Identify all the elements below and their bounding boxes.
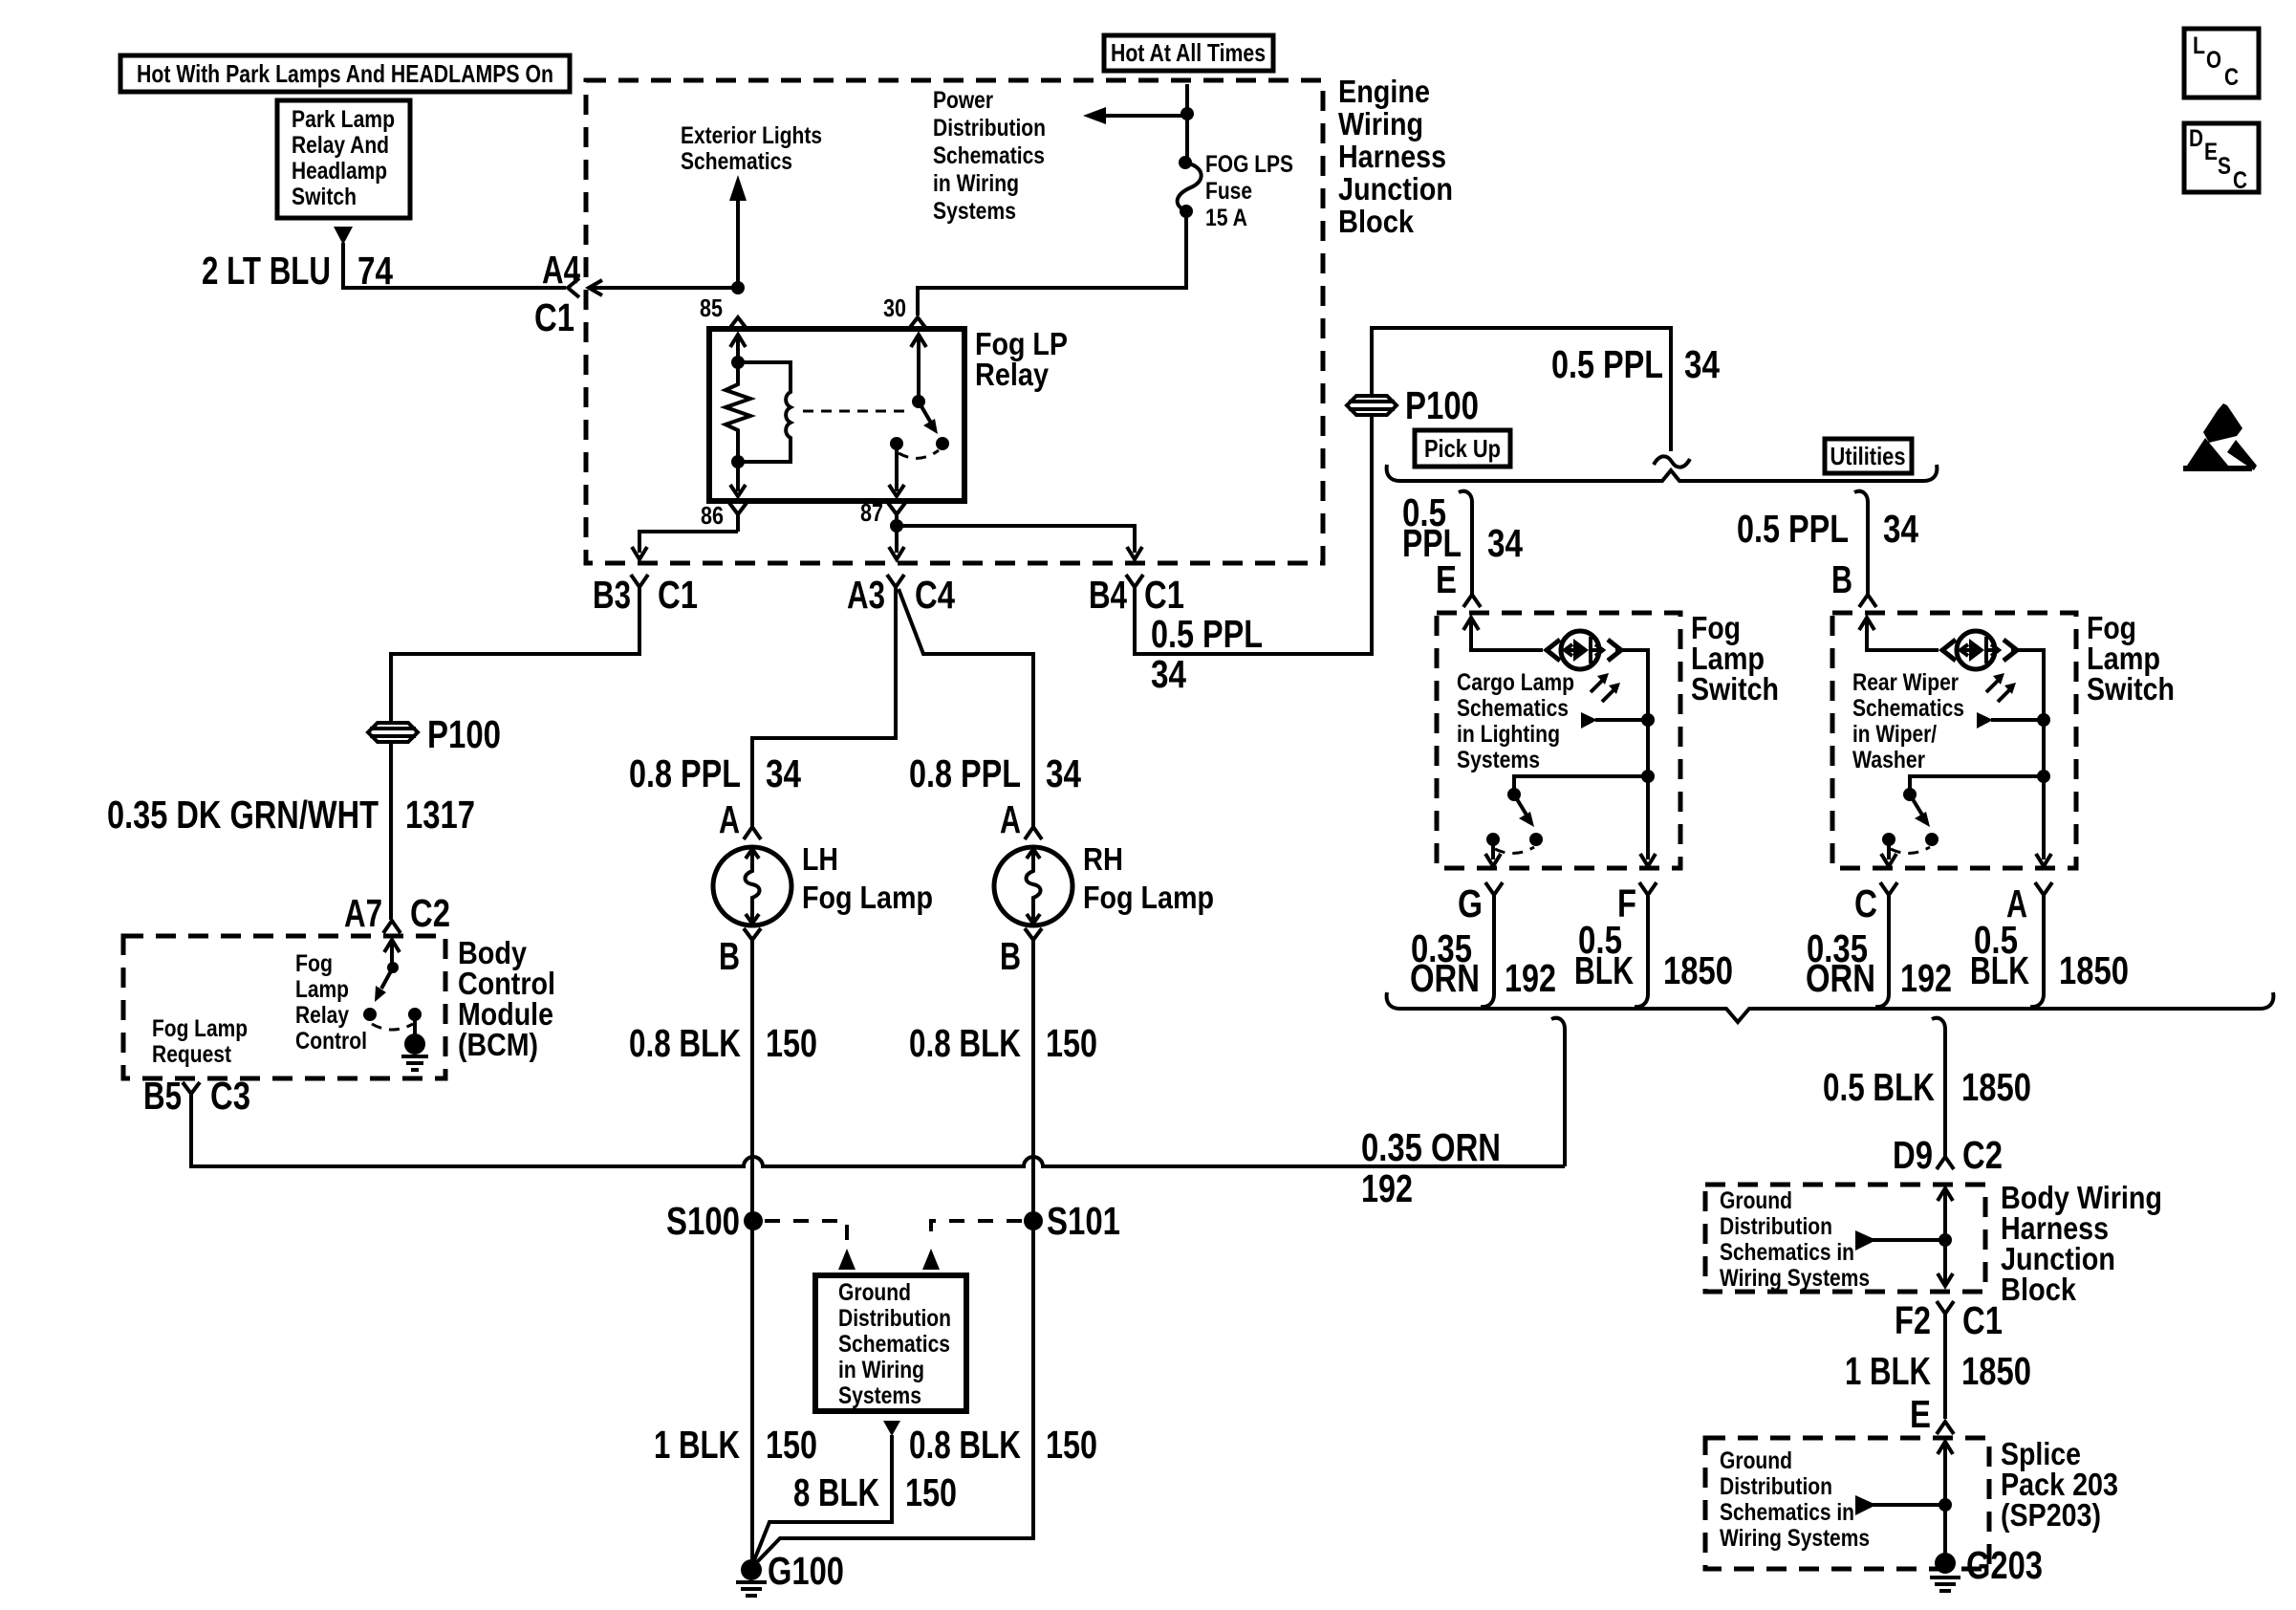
resistor: relay suppression resistor — [726, 362, 750, 438]
svg-text:L: L — [2193, 33, 2205, 59]
svg-text:Fuse: Fuse — [1205, 178, 1252, 205]
svg-text:FOG LPS: FOG LPS — [1205, 151, 1293, 178]
node: junction to power distribution — [1180, 107, 1194, 120]
wire: LH fog lamp feed from A3 — [752, 587, 896, 827]
label: Ground Distribution Schematics in Wiring Systems (body block) — [1720, 1187, 1870, 1292]
svg-text:Block: Block — [1338, 204, 1415, 239]
splice pack internal wire — [1938, 1442, 1953, 1558]
node: junction at pin 85 feed — [731, 281, 745, 294]
connector B5/C3 (fork) — [183, 1082, 200, 1108]
left switch entry arrow — [1463, 618, 1543, 650]
label: Fog Lamp Request — [152, 1015, 248, 1068]
wire: battery feed down from Hot At All Times — [1185, 84, 1189, 159]
svg-text:8 BLK: 8 BLK — [793, 1470, 879, 1514]
svg-text:192: 192 — [1900, 956, 1952, 1000]
legend box: DESC — [2184, 123, 2259, 194]
svg-text:Cargo Lamp: Cargo Lamp — [1457, 669, 1574, 696]
wire: from fuse to relay pin 30 — [918, 211, 1186, 315]
svg-text:Wiring: Wiring — [1338, 106, 1423, 141]
svg-text:34: 34 — [1151, 652, 1186, 696]
svg-text:Distribution: Distribution — [933, 115, 1046, 141]
svg-text:C1: C1 — [1962, 1298, 2003, 1342]
wire: 2 LT BLU 74 from headlamp switch to connector A4 — [343, 243, 566, 288]
switch arm with arrow tip — [919, 402, 938, 434]
connector half A4/C1 (chevron) — [568, 278, 579, 297]
svg-text:150: 150 — [766, 1021, 817, 1065]
label: Fog LP Relay — [975, 326, 1068, 392]
svg-text:E: E — [1910, 1392, 1931, 1436]
svg-text:P100: P100 — [427, 712, 501, 756]
svg-text:34: 34 — [1684, 342, 1720, 386]
svg-text:0.35 DK GRN/WHT: 0.35 DK GRN/WHT — [107, 793, 379, 837]
svg-text:Engine: Engine — [1338, 74, 1430, 109]
svg-text:192: 192 — [1361, 1166, 1413, 1210]
reference arrow: rear wiper tap (right switch) — [1977, 712, 2044, 729]
svg-text:Junction: Junction — [1338, 171, 1453, 207]
fuse: FOG LPS Fuse 15 A — [1178, 151, 1293, 231]
svg-text:Switch: Switch — [1691, 671, 1779, 707]
connector pin G (fork) — [1485, 882, 1503, 906]
wire: 0.5 BLK 1850 from pin F to bus — [1635, 906, 1648, 1007]
svg-text:0.8 BLK: 0.8 BLK — [629, 1021, 741, 1065]
svg-text:0.8 PPL: 0.8 PPL — [629, 751, 741, 795]
terminal 86 (fork) — [729, 503, 747, 532]
dashed box: Body Control Module — [123, 936, 445, 1078]
svg-text:C2: C2 — [410, 891, 450, 935]
component box: Park Lamp Relay And Headlamp Switch — [277, 100, 410, 218]
connector pin B (RH lamp fork) — [1025, 928, 1042, 940]
svg-text:1 BLK: 1 BLK — [1845, 1349, 1931, 1393]
connector A3/C4 (fork) — [887, 575, 904, 587]
svg-text:Wiring Systems: Wiring Systems — [1720, 1525, 1870, 1552]
wire: from A4 to relay pin 85 node — [589, 286, 738, 290]
option brace: Pick Up / Utilities split — [1387, 465, 1938, 481]
terminal 85 (chevron) — [728, 317, 747, 330]
svg-text:1317: 1317 — [405, 793, 475, 837]
wire: resistor to pin 86 with arrow — [730, 438, 746, 496]
dashed box: Engine Wiring Harness Junction Block — [586, 80, 1323, 563]
reference arrow from Park Lamp box — [334, 227, 353, 245]
wire: pin 86 to connector B3 — [632, 532, 738, 559]
svg-text:86: 86 — [701, 501, 724, 530]
node: pin 87 splice — [890, 519, 903, 533]
wire: junction to switch pole (left) — [1514, 776, 1648, 792]
svg-text:0.8 BLK: 0.8 BLK — [909, 1423, 1021, 1467]
connector pin A (LH lamp chevron) — [744, 827, 761, 839]
svg-text:Power: Power — [933, 87, 993, 114]
ground G203 — [1930, 1543, 2043, 1591]
reference box: Ground Distribution Schematics in Wiring Systems — [815, 1275, 966, 1411]
connector pin C (fork) — [1880, 882, 1897, 906]
svg-text:S101: S101 — [1047, 1199, 1120, 1243]
connector A7/C2 (chevron) — [383, 921, 401, 933]
svg-text:Schematics: Schematics — [838, 1331, 950, 1358]
svg-text:1850: 1850 — [1663, 948, 1733, 992]
svg-text:G203: G203 — [1966, 1543, 2043, 1587]
dashed box: Fog Lamp Switch (Pick Up) — [1437, 613, 1680, 868]
svg-text:B5: B5 — [143, 1074, 182, 1118]
wire: 0.5 PPL 34 from B4 through P100 to switch feed — [1135, 328, 1671, 654]
connector pin E (chevron) — [1463, 595, 1481, 607]
svg-text:Headlamp: Headlamp — [292, 158, 387, 185]
svg-text:BLK: BLK — [1970, 948, 2029, 992]
connector P100 (pass-through grommet, right) — [1347, 383, 1479, 427]
svg-text:(BCM): (BCM) — [458, 1027, 538, 1062]
svg-text:Switch: Switch — [2087, 671, 2175, 707]
svg-text:74: 74 — [357, 249, 393, 293]
svg-text:Systems: Systems — [1457, 747, 1540, 773]
legend box: LOC — [2184, 29, 2259, 98]
svg-text:0.5 BLK: 0.5 BLK — [1823, 1065, 1935, 1109]
label: Ground Distribution Schematics in Wiring Systems (splice pack) — [1720, 1447, 1870, 1552]
dashed box: Splice Pack 203 — [1705, 1438, 1989, 1569]
svg-text:C2: C2 — [1962, 1133, 2003, 1177]
wire: 87 to connector B4 with arrow — [897, 526, 1142, 559]
coil L1: relay coil winding — [738, 362, 791, 462]
connector pin A (fork) — [2035, 882, 2052, 906]
reference arrow: Exterior Lights Schematics — [681, 122, 822, 288]
relay U1: Fog LP Relay box — [709, 329, 964, 501]
svg-text:1850: 1850 — [2059, 948, 2129, 992]
svg-text:34: 34 — [1046, 751, 1081, 795]
svg-text:Harness: Harness — [1338, 139, 1446, 174]
node: switch common — [912, 395, 925, 408]
label: Rear Wiper Schematics in Wiper/Washer — [1852, 669, 1964, 773]
svg-text:B3: B3 — [593, 573, 631, 617]
wire: A leg exit arrow (right) — [2036, 776, 2051, 866]
node: output contact to pin 87 — [890, 437, 903, 450]
svg-text:A: A — [1000, 797, 1021, 841]
svg-text:A3: A3 — [847, 573, 885, 617]
svg-text:D: D — [2189, 125, 2203, 152]
wire: output to pin 87 with arrow — [889, 444, 904, 496]
label: Body Wiring Harness Junction Block — [2001, 1180, 2162, 1307]
wire: F leg exit arrow (left) — [1640, 776, 1656, 866]
svg-text:LH: LH — [802, 841, 838, 877]
svg-text:C1: C1 — [1144, 573, 1184, 617]
svg-text:1 BLK: 1 BLK — [654, 1423, 740, 1467]
svg-text:Fog: Fog — [295, 950, 333, 977]
lamp E1: LH Fog Lamp — [713, 847, 791, 925]
node: right switch junction lower — [2037, 770, 2050, 783]
header box: Utilities — [1825, 439, 1912, 473]
svg-text:B: B — [1831, 557, 1852, 601]
svg-text:G100: G100 — [768, 1549, 844, 1593]
lamp E2: RH Fog Lamp — [994, 847, 1072, 925]
reference arrow: ground distribution tap (body block) — [1855, 1230, 1945, 1251]
node: left switch junction lower — [1641, 770, 1655, 783]
BCM fog lamp relay control switch — [363, 940, 422, 1030]
connector B3/C1 (fork) — [631, 575, 648, 595]
label: LH Fog Lamp — [802, 841, 933, 915]
svg-text:G: G — [1458, 881, 1483, 925]
svg-text:Ground: Ground — [1720, 1187, 1792, 1214]
svg-text:150: 150 — [1046, 1423, 1097, 1467]
BCM internal ground — [401, 1014, 428, 1070]
label: Engine Wiring Harness Junction Block — [1338, 74, 1453, 239]
wire: LED to A leg (right switch) — [2011, 650, 2044, 774]
reference arrow below ground box — [883, 1421, 900, 1436]
svg-text:Distribution: Distribution — [1720, 1213, 1832, 1240]
svg-text:1850: 1850 — [1961, 1349, 2031, 1393]
connector pin B (LH lamp fork) — [744, 928, 761, 940]
header box: Hot At All Times — [1104, 35, 1273, 71]
svg-text:Schematics in: Schematics in — [1720, 1499, 1854, 1526]
svg-text:Utilities: Utilities — [1830, 442, 1906, 470]
svg-text:34: 34 — [1487, 521, 1523, 565]
svg-text:ORN: ORN — [1806, 956, 1875, 1000]
label: RH Fog Lamp — [1083, 841, 1214, 915]
svg-text:A7: A7 — [344, 891, 382, 935]
svg-text:0.35 ORN: 0.35 ORN — [1361, 1125, 1501, 1169]
dashed box: Body Wiring Harness Junction Block — [1705, 1185, 1985, 1292]
svg-text:150: 150 — [1046, 1021, 1097, 1065]
svg-text:Ground: Ground — [1720, 1447, 1792, 1474]
svg-text:Hot At All Times: Hot At All Times — [1111, 38, 1266, 67]
svg-text:85: 85 — [700, 294, 723, 322]
svg-text:Systems: Systems — [838, 1382, 921, 1409]
svg-text:192: 192 — [1505, 956, 1556, 1000]
wire: 0.5 BLK 1850 from lower bus to D9 — [1932, 1018, 1945, 1157]
connector pin A (RH lamp chevron) — [1025, 827, 1042, 839]
svg-text:0.8 PPL: 0.8 PPL — [909, 751, 1021, 795]
LED indicator (right switch) — [1942, 631, 2017, 702]
svg-text:RH: RH — [1083, 841, 1123, 877]
svg-text:Distribution: Distribution — [838, 1305, 951, 1332]
node: coil top — [731, 356, 745, 369]
svg-text:Relay: Relay — [295, 1002, 349, 1029]
svg-text:Washer: Washer — [1852, 747, 1925, 773]
svg-text:(SP203): (SP203) — [2001, 1497, 2101, 1533]
right switch entry arrow — [1859, 618, 1939, 650]
svg-text:Ground: Ground — [838, 1279, 911, 1306]
reference arrow: Power Distribution Schematics — [933, 87, 1187, 225]
svg-text:ORN: ORN — [1410, 956, 1480, 1000]
terminal 87 (fork) — [888, 503, 905, 526]
switch SW1: fog lamp switch contact (left) — [1485, 788, 1543, 866]
wire: 0.5 BLK 1850 from pin A to bus — [2030, 906, 2044, 1007]
wire: 0.5 PPL 34 to switch pin B (Utilities) — [1854, 491, 1868, 595]
lower option brace — [1387, 992, 2274, 1022]
svg-text:0.8 BLK: 0.8 BLK — [909, 1021, 1021, 1065]
node: left switch junction upper — [1641, 713, 1655, 727]
svg-text:in Wiper/: in Wiper/ — [1852, 721, 1937, 748]
wire squiggle into option brace — [1654, 456, 1690, 467]
svg-text:D9: D9 — [1893, 1133, 1933, 1177]
svg-text:150: 150 — [905, 1470, 957, 1514]
wire: 0.35 ORN 192 from B5 to junction block (hops over lamp grounds) — [191, 1108, 1565, 1166]
wire: LH lamp ground 0.8 BLK 150 — [750, 940, 754, 1559]
reference arrow: ground distribution tap (splice pack) — [1855, 1495, 1945, 1515]
svg-text:Switch: Switch — [292, 184, 357, 210]
connector D9/C2 (chevron) — [1937, 1157, 1954, 1169]
svg-text:C: C — [1854, 881, 1877, 925]
svg-text:Rear Wiper: Rear Wiper — [1852, 669, 1959, 696]
svg-text:S: S — [2218, 153, 2231, 180]
svg-text:Block: Block — [2001, 1272, 2077, 1307]
svg-text:Pick Up: Pick Up — [1424, 434, 1501, 463]
switch SW2: fog lamp switch contact (right) — [1881, 788, 1939, 866]
dashed reference from S101 — [922, 1221, 1022, 1270]
relay coil branch entry arrow — [730, 335, 746, 362]
connector pin B (chevron) — [1859, 595, 1876, 607]
svg-text:Schematics in: Schematics in — [1720, 1239, 1854, 1266]
wire: junction to switch pole (right) — [1910, 776, 2044, 792]
svg-text:C1: C1 — [658, 573, 698, 617]
wire: 0.35 DK GRN/WHT 1317 from B3 to BCM A7 — [391, 595, 639, 920]
connector pin F (fork) — [1639, 882, 1657, 906]
wire: ORN leg from lower bus to 0.35 ORN run — [1551, 1018, 1565, 1166]
wire: 0.5 PPL 34 to switch pin E (Pick Up) — [1459, 491, 1472, 595]
wire: 0.35 ORN 192 from pin G to bus — [1481, 906, 1494, 1007]
connector F2/C1 (fork) — [1937, 1301, 1954, 1419]
terminal 30 (chevron) — [908, 317, 927, 330]
svg-text:34: 34 — [766, 751, 801, 795]
svg-text:Schematics: Schematics — [1852, 695, 1964, 722]
wire: 87 to connector A3 with arrow — [889, 526, 904, 559]
connector pin E splice pack (chevron) — [1937, 1422, 1954, 1434]
svg-text:in Lighting: in Lighting — [1457, 721, 1560, 748]
svg-text:34: 34 — [1883, 507, 1918, 551]
svg-text:Exterior Lights: Exterior Lights — [681, 122, 822, 149]
svg-text:Lamp: Lamp — [295, 976, 349, 1003]
svg-text:1850: 1850 — [1961, 1065, 2031, 1109]
svg-text:0.5 PPL: 0.5 PPL — [1737, 507, 1849, 551]
node: right switch junction upper — [2037, 713, 2050, 727]
svg-text:B: B — [719, 934, 740, 978]
wire: LED to F leg (left switch) — [1615, 650, 1648, 774]
svg-text:in Wiring: in Wiring — [933, 170, 1019, 197]
header box: Hot With Park Lamps And HEADLAMPS On — [120, 55, 570, 92]
svg-text:0.5 PPL: 0.5 PPL — [1551, 342, 1663, 386]
svg-text:150: 150 — [766, 1423, 817, 1467]
label: Body Control Module (BCM) — [458, 935, 555, 1062]
ESD warning symbol — [2183, 403, 2257, 471]
svg-text:in Wiring: in Wiring — [838, 1357, 924, 1383]
header box: Pick Up — [1415, 430, 1510, 467]
svg-text:C1: C1 — [534, 295, 574, 339]
svg-text:E: E — [1436, 557, 1457, 601]
svg-text:87: 87 — [860, 498, 883, 527]
svg-text:Fog Lamp: Fog Lamp — [1083, 880, 1214, 915]
connector B4/C1 (fork) — [1126, 575, 1143, 595]
svg-text:30: 30 — [883, 294, 906, 322]
svg-text:Systems: Systems — [933, 198, 1016, 225]
dashed reference from S100 — [765, 1221, 856, 1270]
wire: 0.35 ORN 192 from pin C to bus — [1875, 906, 1889, 1007]
svg-text:F2: F2 — [1895, 1298, 1931, 1342]
svg-text:Hot With Park Lamps And HEADLA: Hot With Park Lamps And HEADLAMPS On — [137, 59, 553, 88]
svg-text:O: O — [2206, 47, 2221, 74]
svg-text:2 LT BLU: 2 LT BLU — [202, 249, 331, 293]
label: Fog Lamp Relay Control — [295, 950, 367, 1055]
svg-text:Request: Request — [152, 1041, 232, 1068]
svg-text:C4: C4 — [915, 573, 955, 617]
LED indicator (left switch) — [1547, 631, 1621, 702]
svg-text:C3: C3 — [210, 1074, 250, 1118]
svg-text:C: C — [2224, 64, 2239, 91]
svg-text:P100: P100 — [1405, 383, 1479, 427]
svg-text:Relay: Relay — [975, 357, 1050, 392]
svg-text:E: E — [2204, 139, 2218, 165]
label: Cargo Lamp Schematics in Lighting Systems — [1457, 669, 1574, 773]
label: Fog Lamp Switch (left) — [1691, 610, 1779, 707]
svg-text:Schematics: Schematics — [1457, 695, 1569, 722]
svg-text:Schematics: Schematics — [681, 148, 792, 175]
wire: RH fog lamp feed from C4 — [899, 589, 1033, 827]
svg-text:Control: Control — [295, 1028, 367, 1055]
svg-text:Fog Lamp: Fog Lamp — [152, 1015, 248, 1042]
node: coil bottom — [731, 455, 745, 468]
svg-text:Schematics: Schematics — [933, 142, 1045, 169]
node: normally-open contact — [936, 437, 949, 450]
svg-text:S100: S100 — [666, 1199, 740, 1243]
wire exit arrow into junction block — [589, 280, 602, 295]
label: Fog Lamp Switch (right) — [2087, 610, 2175, 707]
svg-text:A4: A4 — [542, 248, 580, 292]
svg-text:C: C — [2233, 167, 2247, 194]
relay switch arm entry from pin 30 — [911, 335, 926, 402]
svg-text:B: B — [1000, 934, 1021, 978]
svg-text:Relay And: Relay And — [292, 132, 389, 159]
wire: 8 BLK 150 to G100 — [752, 1435, 892, 1565]
svg-text:Park Lamp: Park Lamp — [292, 106, 395, 133]
dashed box: Fog Lamp Switch (Utilities) — [1832, 613, 2076, 868]
svg-text:0.5 PPL: 0.5 PPL — [1151, 612, 1263, 656]
splice S100 — [744, 1211, 763, 1230]
splice S101 — [1024, 1211, 1043, 1230]
svg-text:Distribution: Distribution — [1720, 1473, 1832, 1500]
ground G100 — [736, 1549, 844, 1596]
connector P100 (pass-through grommet, left) — [368, 712, 501, 756]
label: Splice Pack 203 (SP203) — [2001, 1436, 2118, 1533]
reference arrow: cargo lamp tap (left switch) — [1581, 712, 1648, 729]
svg-text:B4: B4 — [1089, 573, 1127, 617]
svg-text:BLK: BLK — [1574, 948, 1634, 992]
dashed travel arc — [899, 450, 939, 458]
svg-text:Wiring Systems: Wiring Systems — [1720, 1265, 1870, 1292]
dashed actuation link — [803, 410, 912, 413]
body junction block pass-through wire — [1938, 1188, 1953, 1286]
svg-text:Fog Lamp: Fog Lamp — [802, 880, 933, 915]
svg-text:A: A — [719, 797, 740, 841]
svg-text:15 A: 15 A — [1205, 205, 1247, 231]
wire: RH lamp ground 0.8 BLK 150 — [753, 940, 1033, 1566]
